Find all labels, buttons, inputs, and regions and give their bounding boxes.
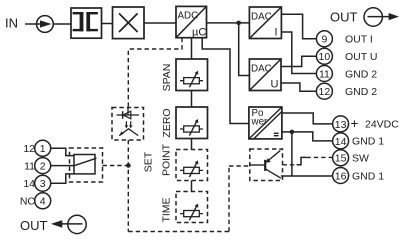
terminal 9 xyxy=(316,31,332,47)
label SET xyxy=(143,151,155,172)
label TIME xyxy=(161,197,173,222)
ZERO potentiometer block xyxy=(176,107,208,139)
svg-text:13: 13 xyxy=(335,119,347,131)
svg-text:OUT I: OUT I xyxy=(345,34,373,46)
svg-text:µC: µC xyxy=(192,27,206,39)
svg-text:TIME: TIME xyxy=(161,197,173,222)
terminal 4 xyxy=(35,193,51,209)
svg-text:11: 11 xyxy=(319,68,330,80)
TIME potentiometer block (dashed) xyxy=(176,192,208,223)
wire DAC U out to terminal 10 xyxy=(281,56,316,66)
svg-text:2: 2 xyxy=(40,161,46,173)
svg-text:OUT U: OUT U xyxy=(345,51,377,63)
label NC xyxy=(20,196,36,208)
wire DAC I out to terminal 9 xyxy=(281,14,316,39)
svg-text:14: 14 xyxy=(23,178,35,190)
wire uC to Power block xyxy=(202,38,249,124)
junction node xyxy=(236,21,241,26)
dashed wire to transistor xyxy=(229,165,250,167)
svg-text:3: 3 xyxy=(40,178,46,190)
svg-text:1: 1 xyxy=(40,143,46,155)
svg-text:GND 1: GND 1 xyxy=(352,136,384,148)
SPAN potentiometer block xyxy=(176,59,208,91)
node OUT (relay) label xyxy=(20,218,48,233)
node IN label xyxy=(5,15,18,30)
wire DAC I return to terminal 11 xyxy=(281,32,316,74)
wire Power to terminal 13 xyxy=(282,113,333,124)
terminal 15 xyxy=(333,150,349,166)
terminal 3 xyxy=(35,175,51,191)
terminal 12 xyxy=(316,83,332,99)
wire DAC U return to terminal 12 xyxy=(281,83,316,91)
transistor Q1 (dashed box, SW output) xyxy=(250,149,283,181)
wire uC to SPAN xyxy=(191,38,193,59)
wire terminal 2 to relay common xyxy=(51,165,74,167)
svg-text:SET: SET xyxy=(143,151,155,172)
svg-text:NC: NC xyxy=(20,196,36,208)
svg-text:POINT: POINT xyxy=(161,143,173,176)
wire multiplier to ADC xyxy=(144,22,176,24)
wire ZERO to SET POINT xyxy=(191,139,193,150)
svg-text:SW: SW xyxy=(352,153,369,165)
output symbol (circle with arrow) xyxy=(364,8,399,26)
light arrows xyxy=(125,121,127,126)
label GND 2 xyxy=(345,68,377,80)
terminal 14 xyxy=(333,133,349,149)
relay K1 (dashed box) xyxy=(70,148,103,182)
svg-text:wer: wer xyxy=(251,117,269,128)
wire IN to source xyxy=(25,23,41,25)
wire terminal 1 to relay NC xyxy=(51,148,74,155)
junction node on dashed net xyxy=(126,163,131,168)
wire junction down to DAC U xyxy=(239,23,250,76)
svg-text:OUT: OUT xyxy=(330,10,358,25)
wire transformer to multiplier xyxy=(102,23,113,25)
label 11 xyxy=(24,161,35,173)
svg-text:12: 12 xyxy=(23,143,35,155)
label GND 2 xyxy=(345,86,377,98)
svg-text:GND 2: GND 2 xyxy=(345,86,377,98)
label POINT xyxy=(161,143,173,176)
svg-text:DAC: DAC xyxy=(251,12,272,23)
junction node power 0V xyxy=(290,130,295,135)
step waveform symbol xyxy=(297,157,307,164)
node OUT (top right) label xyxy=(330,10,358,25)
terminal 2 xyxy=(35,158,51,174)
wire rail to transistor and terminal 16 xyxy=(281,175,333,177)
label OUT U xyxy=(345,51,377,63)
relay contact xyxy=(74,155,95,174)
svg-text:15: 15 xyxy=(335,153,347,165)
wire SET POINT to TIME xyxy=(191,181,193,192)
dashed wire right edge of SET loop xyxy=(228,166,230,232)
dashed net: opto down left edge of SET loop xyxy=(127,140,129,232)
dashed wire ADC to optocoupler xyxy=(128,38,182,108)
dashed wire transistor to step symbol xyxy=(283,164,298,166)
svg-text:24VDC: 24VDC xyxy=(365,119,399,131)
label + 24VDC xyxy=(351,116,400,131)
wire SPAN to ZERO xyxy=(191,91,193,108)
svg-text:+: + xyxy=(351,116,359,131)
dashed wire bottom of SET loop xyxy=(128,231,229,233)
phototransistor xyxy=(119,129,138,136)
svg-text:14: 14 xyxy=(335,136,347,148)
terminal 16 xyxy=(333,168,349,184)
dashed wire step to terminal 15 xyxy=(306,156,332,158)
optocoupler (dashed box) xyxy=(112,108,144,141)
SET POINT potentiometer block (dashed) xyxy=(176,150,208,181)
terminal 11 xyxy=(316,66,332,82)
current source symbol (circle with arrow) xyxy=(37,16,54,33)
DAC I converter xyxy=(249,7,281,39)
svg-text:16: 16 xyxy=(335,170,347,182)
multiplier block (X) xyxy=(113,7,145,39)
wire ADC to DAC I with junction xyxy=(207,22,250,24)
label SPAN xyxy=(161,64,173,92)
svg-text:ZERO: ZERO xyxy=(161,108,173,137)
label SW xyxy=(352,153,369,165)
ADC / microcontroller U1 xyxy=(176,6,207,38)
wire terminal 3 to relay NO xyxy=(51,174,74,183)
terminal 10 xyxy=(316,48,332,64)
label GND 1 xyxy=(352,170,384,182)
label GND 1 xyxy=(352,136,384,148)
wire junction to terminal 14 xyxy=(292,132,333,141)
svg-text:IN: IN xyxy=(5,15,18,30)
svg-text:OUT: OUT xyxy=(20,218,48,233)
svg-text:4: 4 xyxy=(40,196,46,208)
terminal 13 xyxy=(333,116,349,132)
svg-text:GND 2: GND 2 xyxy=(345,68,377,80)
wire junction down to emitter rail xyxy=(291,132,293,176)
transformer T1 (isolation) xyxy=(71,8,102,38)
svg-text:U: U xyxy=(271,79,279,91)
svg-text:11: 11 xyxy=(24,161,35,173)
svg-text:GND 1: GND 1 xyxy=(352,170,384,182)
svg-text:12: 12 xyxy=(319,86,331,98)
terminal 1 xyxy=(35,140,51,156)
label 12 xyxy=(23,143,35,155)
svg-text:SPAN: SPAN xyxy=(161,64,173,92)
relay OUT arrow symbol xyxy=(51,215,86,233)
label ZERO xyxy=(161,108,173,137)
svg-text:I: I xyxy=(275,27,278,39)
wire source to transformer xyxy=(54,23,72,25)
label 14 xyxy=(23,178,35,190)
label OUT I xyxy=(345,34,373,46)
LED diode xyxy=(117,114,139,116)
svg-text:9: 9 xyxy=(321,34,327,46)
DAC U converter xyxy=(249,59,281,91)
wire Power 0V to junction xyxy=(282,131,292,133)
svg-text:ADC: ADC xyxy=(178,11,199,22)
svg-text:10: 10 xyxy=(319,51,331,63)
dashed wire relay to junction xyxy=(103,165,127,167)
svg-text:DAC: DAC xyxy=(251,64,272,75)
Power supply block xyxy=(249,107,282,139)
